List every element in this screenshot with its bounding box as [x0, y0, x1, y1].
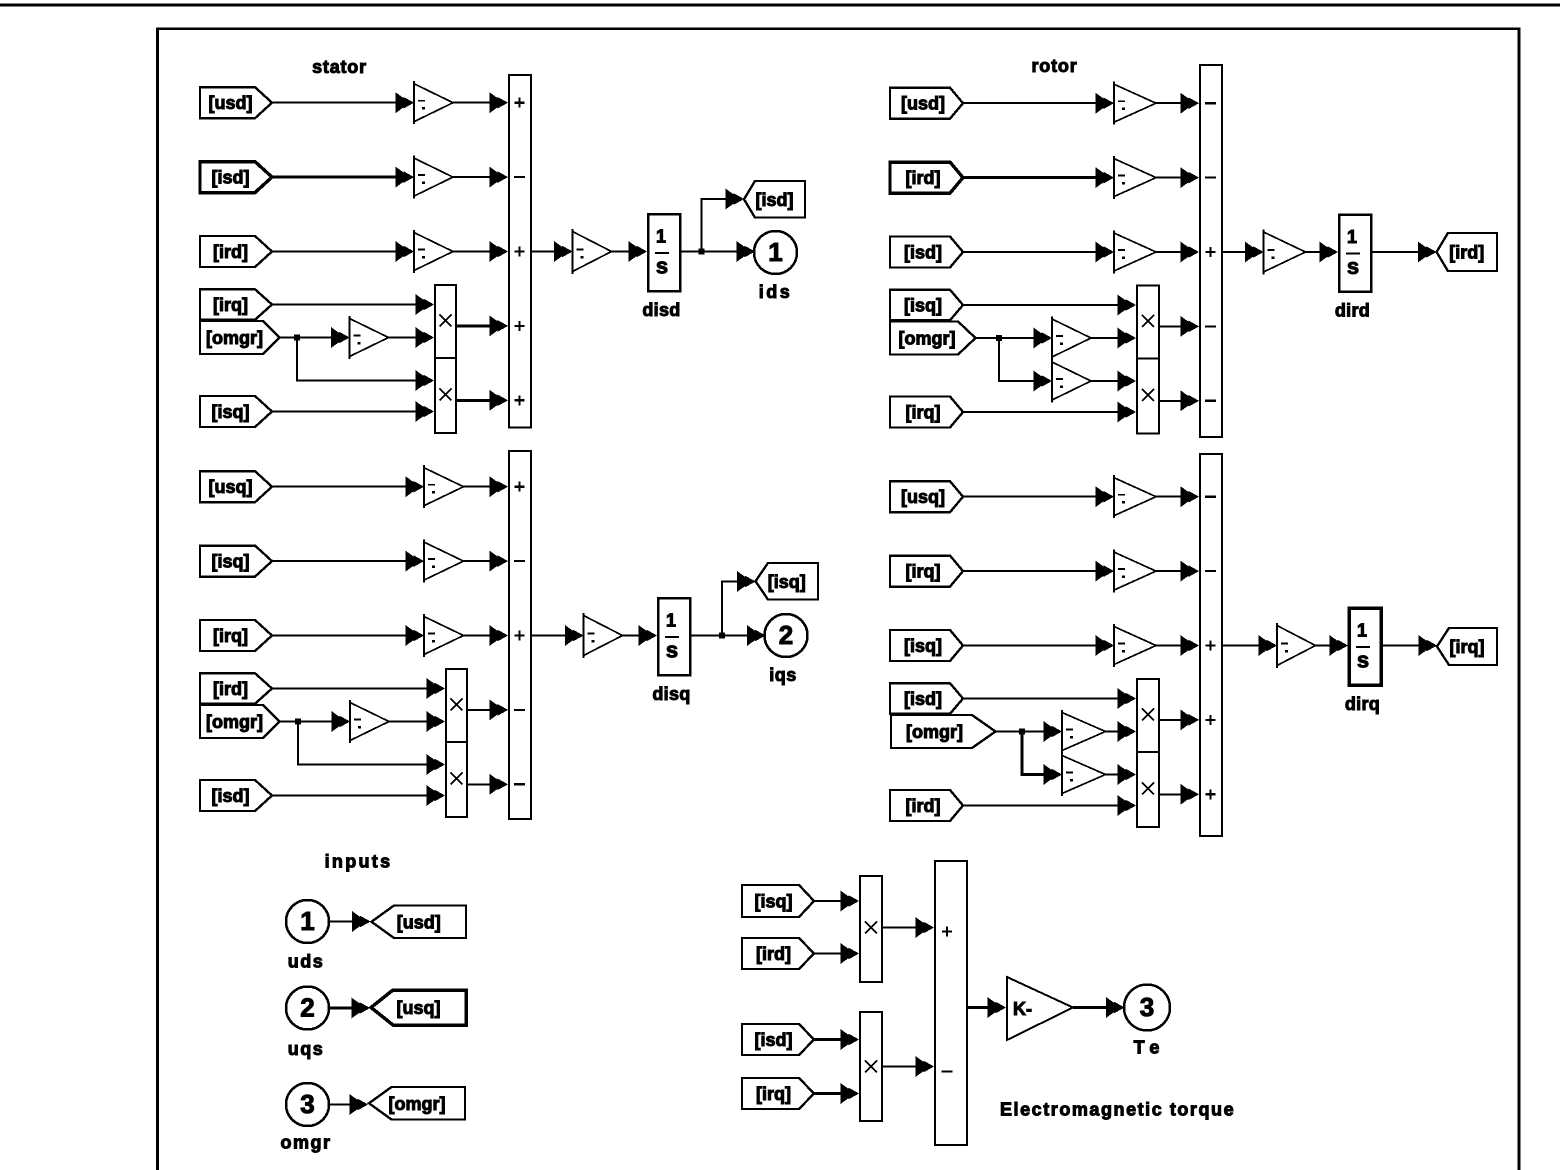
svg-text:[omgr]: [omgr] — [389, 1094, 446, 1114]
svg-text:1: 1 — [656, 227, 666, 247]
svg-text:1: 1 — [768, 237, 782, 267]
svg-text:Te: Te — [1134, 1038, 1166, 1058]
svg-text:1: 1 — [300, 906, 314, 936]
svg-text:ids: ids — [759, 282, 793, 302]
svg-text:[isq]: [isq] — [212, 552, 250, 572]
svg-text:[ird]: [ird] — [906, 168, 941, 188]
svg-text:omgr: omgr — [281, 1133, 332, 1153]
svg-text:inputs: inputs — [325, 852, 393, 872]
svg-text:[usq]: [usq] — [397, 998, 441, 1018]
svg-text:3: 3 — [300, 1089, 314, 1119]
svg-text:[usd]: [usd] — [209, 93, 253, 113]
svg-text:[usq]: [usq] — [209, 477, 253, 497]
svg-text:2: 2 — [300, 993, 314, 1023]
svg-text:rotor: rotor — [1032, 56, 1078, 76]
svg-text:[irq]: [irq] — [1450, 637, 1485, 657]
svg-text:[isq]: [isq] — [904, 296, 942, 316]
svg-text:[isq]: [isq] — [768, 572, 806, 592]
svg-text:[usd]: [usd] — [397, 912, 441, 932]
svg-text:[irq]: [irq] — [213, 295, 248, 315]
svg-text:[omgr]: [omgr] — [906, 722, 963, 742]
svg-text:[irq]: [irq] — [756, 1084, 791, 1104]
svg-text:2: 2 — [779, 620, 793, 650]
svg-text:dirq: dirq — [1345, 694, 1380, 714]
svg-text:[irq]: [irq] — [213, 626, 248, 646]
svg-text:[ird]: [ird] — [756, 944, 791, 964]
svg-text:[ird]: [ird] — [906, 796, 941, 816]
svg-text:[irq]: [irq] — [906, 403, 941, 423]
svg-text:[isd]: [isd] — [212, 168, 250, 188]
svg-text:[usd]: [usd] — [901, 94, 945, 114]
svg-text:[omgr]: [omgr] — [206, 712, 263, 732]
svg-text:[isd]: [isd] — [904, 243, 942, 263]
svg-text:1: 1 — [666, 611, 676, 631]
svg-text:disd: disd — [642, 300, 680, 320]
svg-text:1: 1 — [1347, 227, 1357, 247]
svg-text:[omgr]: [omgr] — [206, 328, 263, 348]
svg-text:uqs: uqs — [288, 1039, 325, 1059]
svg-text:[omgr]: [omgr] — [899, 329, 956, 349]
svg-text:[isd]: [isd] — [212, 786, 250, 806]
svg-text:stator: stator — [312, 57, 367, 77]
svg-text:[isq]: [isq] — [212, 402, 250, 422]
svg-text:Electromagnetic torque: Electromagnetic torque — [1000, 1100, 1235, 1120]
svg-text:[isq]: [isq] — [904, 636, 942, 656]
svg-text:[irq]: [irq] — [906, 562, 941, 582]
svg-text:uds: uds — [288, 952, 325, 972]
svg-text:[isq]: [isq] — [755, 892, 793, 912]
svg-text:3: 3 — [1140, 992, 1154, 1022]
svg-text:s: s — [1357, 648, 1369, 673]
svg-text:[ird]: [ird] — [213, 242, 248, 262]
svg-text:K-: K- — [1013, 999, 1032, 1019]
svg-text:[isd]: [isd] — [755, 1030, 793, 1050]
svg-text:1: 1 — [1357, 621, 1367, 641]
svg-text:dird: dird — [1335, 301, 1370, 321]
svg-text:[ird]: [ird] — [1449, 243, 1484, 263]
svg-text:iqs: iqs — [769, 665, 797, 685]
svg-text:[isd]: [isd] — [904, 689, 942, 709]
svg-text:[ird]: [ird] — [213, 679, 248, 699]
svg-text:s: s — [656, 254, 668, 279]
svg-text:s: s — [1347, 254, 1359, 279]
svg-text:s: s — [666, 638, 678, 663]
svg-text:[isd]: [isd] — [756, 190, 794, 210]
svg-text:disq: disq — [652, 684, 690, 704]
svg-text:[usq]: [usq] — [901, 487, 945, 507]
